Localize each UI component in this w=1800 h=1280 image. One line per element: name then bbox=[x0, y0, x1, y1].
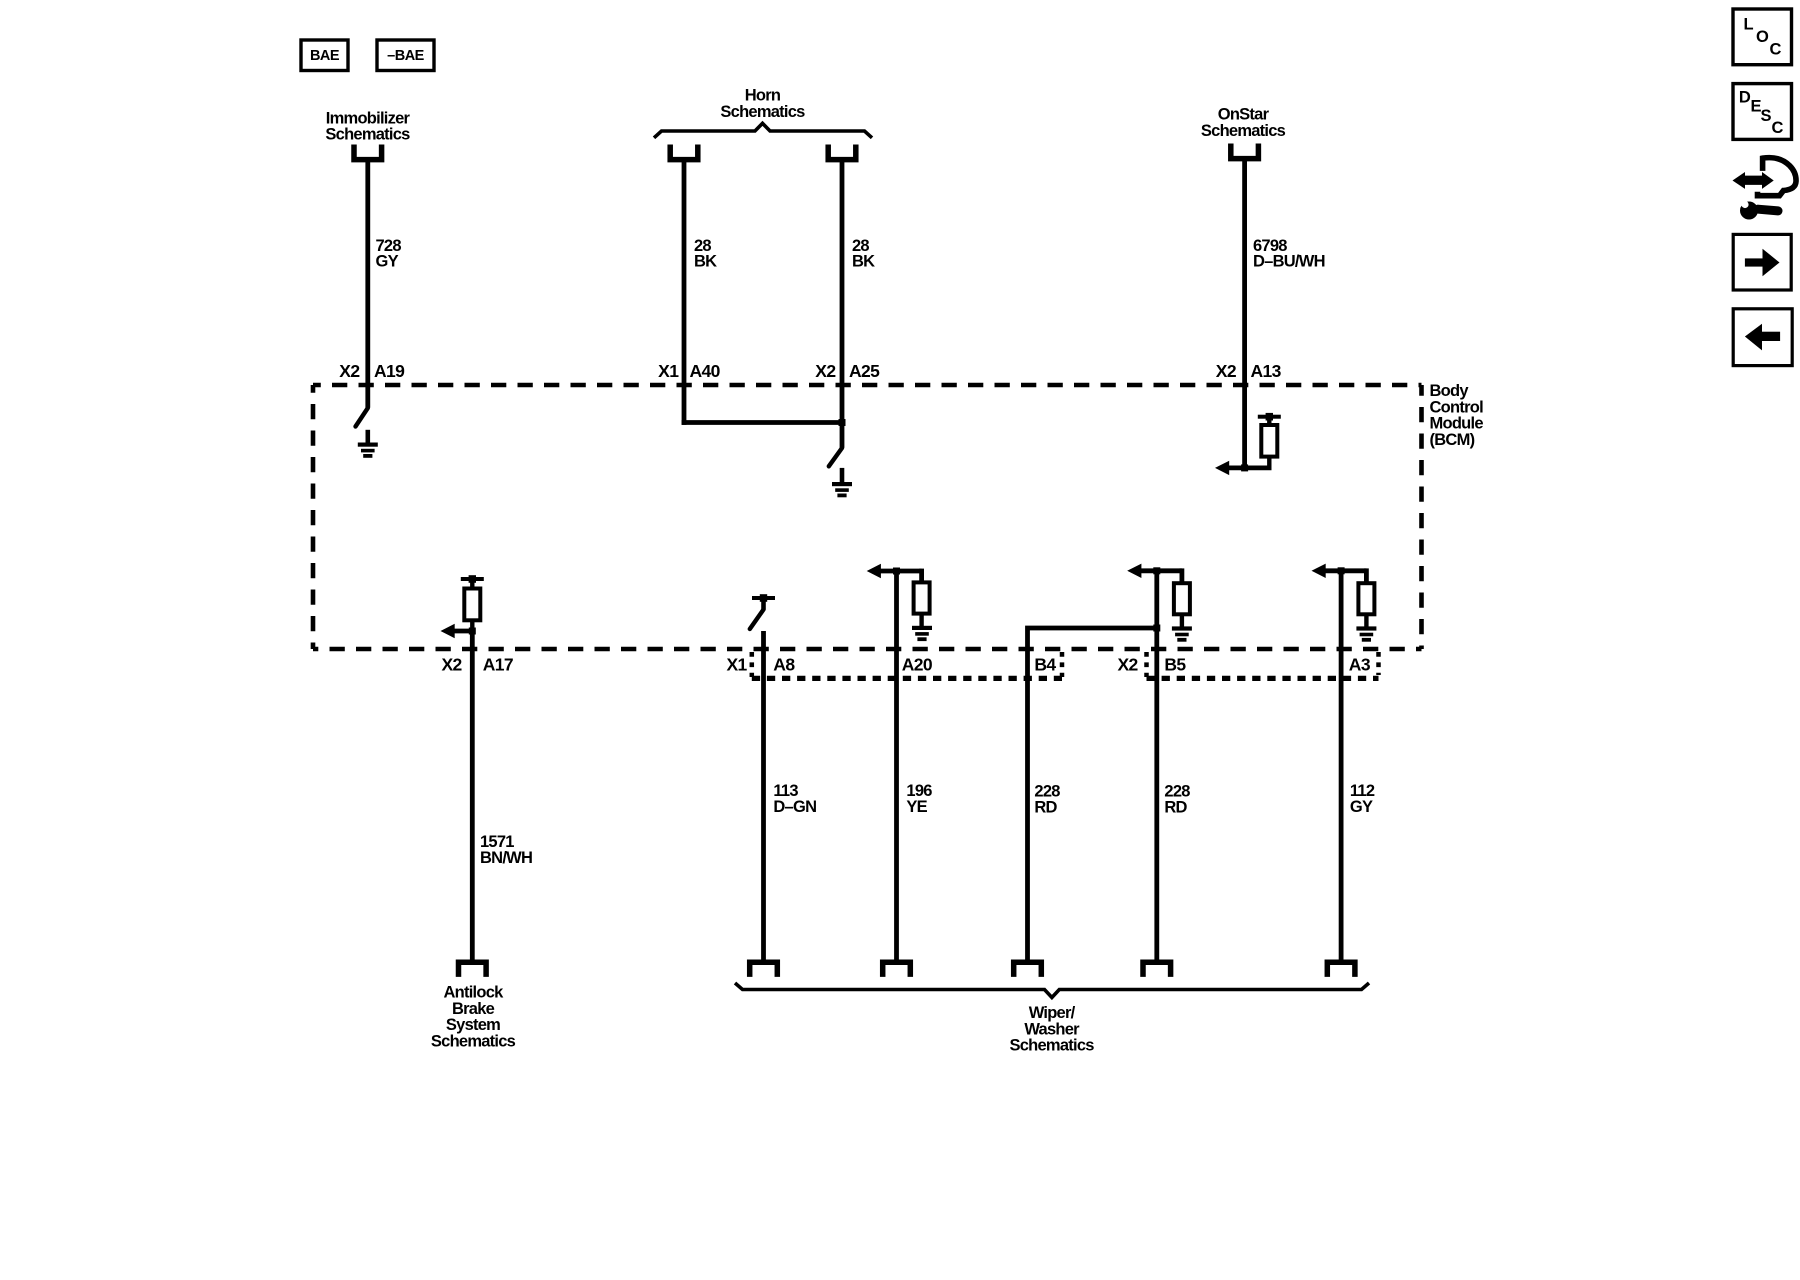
switch at A25 (blade) bbox=[829, 448, 842, 466]
svg-text:Schematics: Schematics bbox=[1009, 1037, 1094, 1055]
diagnostic icon (double arrow, curved arrow, wrench) bbox=[1733, 158, 1797, 220]
resistor at A3 branch bbox=[1358, 583, 1374, 614]
svg-text:A13: A13 bbox=[1251, 361, 1282, 381]
stub + ground below B5 resistor bbox=[1180, 614, 1184, 627]
svg-text:A3: A3 bbox=[1349, 654, 1371, 674]
svg-text:A25: A25 bbox=[849, 361, 880, 381]
connector to Wiper/Washer (B4) bbox=[1014, 962, 1042, 977]
resistor at A17 branch bbox=[464, 589, 480, 621]
svg-text:A17: A17 bbox=[483, 654, 513, 674]
pin label X2 | A13 bbox=[1216, 361, 1282, 381]
T-bar contact above A13 resistor bbox=[1258, 413, 1281, 421]
dotted connector box B5-A3 bbox=[1147, 652, 1379, 678]
wire label 113 D-GN bbox=[773, 782, 816, 816]
next arrow button bbox=[1733, 234, 1791, 290]
stub below A13 resistor bbox=[1267, 457, 1271, 468]
Horn Schematics label bbox=[720, 86, 805, 121]
junction at A25 wire bbox=[839, 419, 846, 426]
svg-text:Schematics: Schematics bbox=[325, 126, 410, 144]
resistor at A20 branch bbox=[914, 582, 930, 613]
connector to Horn Schematics (right) bbox=[828, 145, 856, 160]
svg-text:OnStar: OnStar bbox=[1218, 106, 1270, 124]
corner down to B5 resistor bbox=[1180, 568, 1185, 583]
wire join A40 to A25 inside BCM bbox=[682, 420, 842, 425]
wire label 112 GY bbox=[1350, 782, 1375, 816]
svg-text:Washer: Washer bbox=[1024, 1020, 1080, 1038]
wire from A8 down to wiper connector bbox=[761, 631, 766, 961]
wire label 196 YE bbox=[906, 782, 932, 816]
svg-text:GY: GY bbox=[1350, 798, 1373, 816]
svg-text:(BCM): (BCM) bbox=[1430, 431, 1475, 449]
svg-text:X2: X2 bbox=[441, 654, 462, 674]
ground below A25 switch bbox=[840, 468, 845, 483]
svg-text:YE: YE bbox=[906, 798, 927, 816]
wire label 228 RD (B5) bbox=[1164, 783, 1190, 817]
svg-text:Brake: Brake bbox=[452, 1000, 495, 1018]
arrow line at B5 bbox=[1141, 568, 1182, 573]
svg-text:A40: A40 bbox=[690, 361, 721, 381]
wire from A3 down to wiper connector bbox=[1339, 571, 1344, 961]
stub + ground below A20 resistor bbox=[919, 614, 923, 627]
svg-text:B4: B4 bbox=[1034, 654, 1056, 674]
stub + ground below A3 resistor bbox=[1364, 614, 1368, 627]
junction at A13 wire bbox=[1241, 464, 1248, 471]
svg-text:L: L bbox=[1744, 16, 1754, 34]
wire 28 BK to BCM X1-A40 bbox=[682, 160, 687, 425]
svg-text:BK: BK bbox=[694, 253, 717, 271]
wire from A20 down to wiper connector bbox=[894, 571, 899, 961]
connector to Immobilizer Schematics bbox=[354, 145, 382, 160]
svg-text:X1: X1 bbox=[658, 361, 679, 381]
ground below A19 switch bbox=[365, 430, 370, 444]
svg-text:Wiper/: Wiper/ bbox=[1029, 1004, 1076, 1022]
svg-text:System: System bbox=[446, 1016, 500, 1034]
svg-text:X2: X2 bbox=[815, 361, 836, 381]
svg-text:B5: B5 bbox=[1164, 654, 1186, 674]
junction at B5 wire on link bbox=[1153, 625, 1160, 632]
svg-text:Antilock: Antilock bbox=[443, 984, 504, 1002]
connector to Horn Schematics (left) bbox=[670, 145, 698, 160]
svg-text:Schematics: Schematics bbox=[1201, 122, 1286, 140]
connector to OnStar Schematics bbox=[1231, 144, 1259, 159]
wire label 1571 BN/WH bbox=[480, 833, 532, 867]
wire label 28 BK (left) bbox=[694, 237, 717, 271]
Wiper/Washer Schematics label bbox=[1009, 1004, 1094, 1055]
svg-text:D–BU/WH: D–BU/WH bbox=[1253, 253, 1325, 271]
svg-text:A19: A19 bbox=[374, 361, 405, 381]
resistor at B5 branch bbox=[1174, 583, 1190, 614]
switch at A19 (blade) bbox=[356, 408, 368, 427]
connector to Wiper/Washer (A20) bbox=[883, 962, 911, 977]
svg-text:A8: A8 bbox=[773, 654, 795, 674]
wire 28 BK to BCM X2-A25 bbox=[840, 160, 845, 447]
svg-text:BK: BK bbox=[852, 253, 875, 271]
svg-text:D: D bbox=[1739, 88, 1751, 106]
pin label X2 | A19 bbox=[339, 361, 405, 381]
reference label box BAE bbox=[301, 40, 348, 71]
wire link B4 to B5 bbox=[1028, 628, 1157, 961]
wire from A17 down to Antilock connector bbox=[470, 631, 475, 961]
svg-text:A20: A20 bbox=[902, 654, 933, 674]
svg-text:Immobilizer: Immobilizer bbox=[326, 109, 411, 127]
wire 6798 D-BU/WH to BCM X2-A13 bbox=[1242, 159, 1247, 468]
pin label X2 | B5 bbox=[1117, 654, 1186, 674]
OnStar Schematics label bbox=[1201, 106, 1286, 140]
svg-text:S: S bbox=[1761, 107, 1772, 125]
svg-text:–BAE: –BAE bbox=[387, 48, 425, 64]
svg-text:C: C bbox=[1770, 41, 1782, 59]
svg-text:Body: Body bbox=[1430, 382, 1470, 400]
svg-text:GY: GY bbox=[376, 253, 399, 271]
pin label X1 | A8 bbox=[726, 654, 795, 674]
svg-text:Horn: Horn bbox=[745, 86, 781, 104]
connector to Wiper/Washer (A3) bbox=[1327, 962, 1355, 977]
pin label X2 | A25 bbox=[815, 361, 880, 381]
arrow line at A13 bbox=[1228, 465, 1272, 470]
svg-text:BN/WH: BN/WH bbox=[480, 849, 532, 867]
svg-text:X2: X2 bbox=[1216, 361, 1237, 381]
svg-text:X2: X2 bbox=[1117, 654, 1138, 674]
junction at A17 wire bbox=[469, 628, 476, 635]
svg-text:Schematics: Schematics bbox=[720, 103, 805, 121]
connector to Wiper/Washer (B5) bbox=[1143, 962, 1171, 977]
arrow line at A20 bbox=[880, 569, 922, 574]
connector to Wiper/Washer (A8) bbox=[750, 962, 778, 977]
svg-text:X2: X2 bbox=[339, 361, 360, 381]
DESC button bbox=[1733, 84, 1792, 140]
wire label 6798 D-BU/WH bbox=[1253, 237, 1325, 271]
junction at A20 wire bbox=[893, 568, 900, 575]
switch at A8: blade bbox=[750, 610, 764, 630]
svg-text:Schematics: Schematics bbox=[431, 1032, 516, 1050]
brace under Wiper/Washer connectors bbox=[735, 983, 1369, 998]
wire label 28 BK (right) bbox=[852, 237, 875, 271]
connector to Antilock Brake System Schematics bbox=[459, 962, 487, 977]
svg-text:Module: Module bbox=[1430, 415, 1484, 433]
wire label 728 GY bbox=[376, 237, 402, 271]
svg-text:C: C bbox=[1772, 119, 1784, 137]
arrow line at A17 bbox=[453, 629, 472, 634]
arrow line at A3 bbox=[1325, 568, 1367, 573]
svg-text:RD: RD bbox=[1164, 799, 1187, 817]
pin label X2 | A17 bbox=[441, 654, 513, 674]
resistor at A13 bbox=[1261, 425, 1277, 457]
pin label X1 | A40 bbox=[658, 361, 720, 381]
stub below A17 resistor bbox=[470, 620, 474, 631]
wire label 228 RD (B4) bbox=[1034, 783, 1060, 817]
svg-text:X1: X1 bbox=[726, 654, 747, 674]
junction at B5 wire bbox=[1153, 567, 1160, 574]
brace over Horn connectors bbox=[654, 123, 872, 138]
corner down to A3 resistor bbox=[1364, 568, 1369, 583]
corner down to A20 resistor bbox=[919, 569, 924, 583]
wire from B5 down to wiper connector bbox=[1154, 571, 1159, 961]
back arrow button bbox=[1733, 309, 1792, 366]
LOC button bbox=[1733, 9, 1792, 65]
Antilock Brake System Schematics label bbox=[431, 984, 516, 1051]
junction at A3 wire bbox=[1338, 567, 1345, 574]
svg-text:O: O bbox=[1756, 28, 1769, 46]
svg-text:Control: Control bbox=[1430, 398, 1484, 416]
svg-text:BAE: BAE bbox=[310, 48, 340, 64]
reference label box -BAE bbox=[377, 40, 434, 71]
svg-text:D–GN: D–GN bbox=[773, 798, 816, 816]
Immobilizer Schematics label bbox=[325, 109, 410, 143]
dotted connector box A8-A20-B4 bbox=[752, 652, 1062, 678]
switch at A8: T-bar contact bbox=[752, 594, 775, 602]
svg-text:RD: RD bbox=[1034, 799, 1057, 817]
wire 728 GY from Immobilizer to BCM X2-A19 bbox=[365, 160, 370, 407]
Body Control Module (BCM) label bbox=[1430, 382, 1484, 449]
Body Control Module (BCM) dashed outline bbox=[313, 385, 1422, 649]
T-bar contact above A17 resistor bbox=[461, 575, 484, 583]
